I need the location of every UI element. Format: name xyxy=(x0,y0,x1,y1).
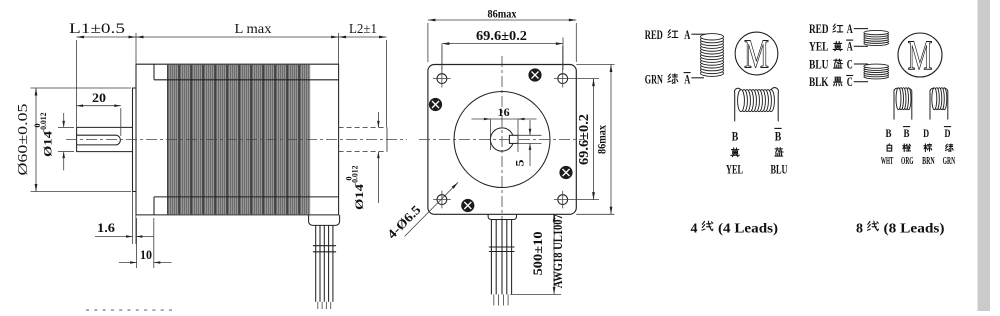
svg-text:16: 16 xyxy=(498,105,510,119)
phase C coil (8-lead) xyxy=(864,64,889,79)
svg-text:86max: 86max xyxy=(488,7,517,21)
dimension L max xyxy=(136,22,339,64)
dimension L1±0.5 xyxy=(69,21,136,127)
svg-text:ORG: ORG xyxy=(901,156,914,167)
svg-text:Ø60±0.05: Ø60±0.05 xyxy=(15,103,30,175)
center lines front view xyxy=(419,139,585,141)
rear shaft (hidden, dashed) xyxy=(339,127,387,151)
lead wire xyxy=(854,81,868,83)
wire lead A-bar to phase coil xyxy=(691,77,704,79)
dimension 10 (flange thickness) xyxy=(119,218,172,268)
svg-text:B: B xyxy=(886,126,892,140)
dimension 86max top xyxy=(428,7,576,63)
motor symbol M (8-lead) xyxy=(898,33,942,80)
lamination stack hatching xyxy=(167,65,310,215)
svg-text:(8 Leads): (8 Leads) xyxy=(884,221,945,236)
svg-text:A: A xyxy=(684,72,690,87)
label B / B-bar xyxy=(732,128,782,143)
wire exit block front view xyxy=(488,214,516,219)
svg-text:RED: RED xyxy=(809,21,829,36)
front view square flange xyxy=(428,65,576,215)
svg-text:GRN: GRN xyxy=(943,156,956,167)
dimension 20 (flat length) xyxy=(77,90,121,136)
dimension 5 (keyway width) xyxy=(513,120,542,167)
svg-text:RED: RED xyxy=(645,27,663,42)
svg-text:M: M xyxy=(744,31,769,77)
label RED row xyxy=(809,21,853,36)
svg-text:Ø14: Ø14 xyxy=(352,184,366,210)
svg-text:Ø14: Ø14 xyxy=(41,131,55,157)
svg-text:5: 5 xyxy=(513,160,527,167)
svg-text:A: A xyxy=(847,39,853,54)
svg-text:BLK: BLK xyxy=(809,74,829,89)
svg-text:69.6±0.2: 69.6±0.2 xyxy=(577,114,592,165)
labels B B-bar D D-bar xyxy=(886,126,952,140)
dimension L2±1 xyxy=(339,22,387,127)
phase D coil (8-lead) xyxy=(930,88,948,120)
gray scrollbar strip at right edge xyxy=(978,0,991,311)
motor body side view outline xyxy=(136,64,339,215)
dimension 86max right xyxy=(576,65,614,215)
dimension 1.6 (boss height) xyxy=(95,192,154,245)
mounting hole xyxy=(433,191,451,209)
svg-text:L1±0.5: L1±0.5 xyxy=(69,21,125,37)
shaft milled flat xyxy=(77,135,121,145)
svg-text:M: M xyxy=(908,34,933,80)
svg-text:AWG18 UL1007: AWG18 UL1007 xyxy=(550,214,565,288)
corner screw head xyxy=(462,199,474,211)
lead wire xyxy=(854,28,868,30)
keyway on shaft xyxy=(509,135,518,143)
mounting hole xyxy=(554,46,599,87)
svg-text:YEL: YEL xyxy=(809,39,829,54)
svg-text:BLU: BLU xyxy=(809,56,829,71)
bottom cut-off caption fragment xyxy=(86,309,172,311)
corner screw head xyxy=(560,166,572,178)
label YEL row xyxy=(809,39,853,54)
wire lead A to phase coil xyxy=(691,33,706,35)
svg-text:A: A xyxy=(847,21,853,36)
caption 8 线 (8 Leads) xyxy=(856,221,945,236)
svg-text:20: 20 xyxy=(92,90,106,105)
svg-text:B: B xyxy=(904,126,910,140)
svg-text:YEL: YEL xyxy=(726,163,743,177)
phase B coil (horizontal) xyxy=(734,88,778,122)
svg-text:GRN: GRN xyxy=(645,72,663,87)
svg-text:4: 4 xyxy=(691,221,698,236)
mounting hole xyxy=(554,191,599,209)
svg-text:0: 0 xyxy=(33,124,42,128)
dimension Ø60±0.05 xyxy=(15,88,131,192)
front face circle xyxy=(454,92,550,188)
svg-text:D: D xyxy=(923,126,929,140)
svg-text:1.6: 1.6 xyxy=(97,220,116,235)
svg-text:-0.012: -0.012 xyxy=(39,113,48,133)
dimension 500±10 wire length xyxy=(510,214,561,294)
lead wire xyxy=(854,45,868,47)
svg-text:0: 0 xyxy=(344,177,353,181)
motor symbol M (4-lead) xyxy=(735,31,778,77)
corner screw head xyxy=(429,98,441,110)
wire bundle side view xyxy=(313,225,336,309)
label YEL / BLU xyxy=(726,163,788,177)
svg-text:L max: L max xyxy=(235,22,272,37)
svg-text:C: C xyxy=(847,74,853,89)
label 黄 / 蓝 xyxy=(731,148,740,157)
svg-text:10: 10 xyxy=(140,247,152,262)
mounting hole xyxy=(433,46,451,87)
center line left view xyxy=(66,139,407,141)
label GRN 绿 A-bar xyxy=(645,72,691,87)
svg-text:C: C xyxy=(847,56,853,71)
svg-text:BLU: BLU xyxy=(771,163,788,177)
dimension 16 (shaft across keyway) xyxy=(472,105,537,152)
phase A coil (vertical) xyxy=(701,34,724,77)
label 4-Ø6.5 with leader xyxy=(384,182,458,241)
dimension 69.6±0.2 top xyxy=(442,29,563,70)
caption 4 线 (4 Leads) xyxy=(691,221,779,236)
svg-text:B: B xyxy=(775,129,782,144)
svg-text:500±10: 500±10 xyxy=(530,231,545,275)
labels 白 橙 棕 绿 xyxy=(887,144,892,151)
svg-text:L2±1: L2±1 xyxy=(349,22,377,37)
svg-text:86max: 86max xyxy=(595,125,609,154)
svg-text:8: 8 xyxy=(856,221,863,236)
phase A coil (8-lead) xyxy=(864,30,889,45)
labels WHT ORG BRN GRN xyxy=(881,156,956,167)
label BLU row xyxy=(809,56,853,71)
svg-text:(4 Leads): (4 Leads) xyxy=(718,221,778,236)
shaft circle front view xyxy=(490,128,513,151)
svg-text:BRN: BRN xyxy=(922,156,935,167)
phase B coil (8-lead) xyxy=(894,88,912,120)
dimension 69.6±0.2 right xyxy=(577,79,595,200)
dimension Ø14 rear shaft xyxy=(344,112,379,210)
label RED 红 A xyxy=(645,27,691,42)
label BLK row xyxy=(809,74,853,89)
svg-text:A: A xyxy=(684,27,690,42)
lead wire xyxy=(854,63,868,65)
svg-text:-0.012: -0.012 xyxy=(350,166,359,186)
wire bundle front view xyxy=(489,220,515,306)
svg-text:B: B xyxy=(732,129,739,144)
wire exit block side view xyxy=(309,215,340,226)
svg-text:D: D xyxy=(945,126,951,140)
front pilot boss xyxy=(133,88,137,192)
front shaft xyxy=(77,127,133,151)
svg-text:WHT: WHT xyxy=(881,156,894,167)
svg-text:69.6±0.2: 69.6±0.2 xyxy=(476,29,527,44)
dimension Ø14 front shaft xyxy=(33,113,74,171)
corner screw head xyxy=(529,69,541,81)
